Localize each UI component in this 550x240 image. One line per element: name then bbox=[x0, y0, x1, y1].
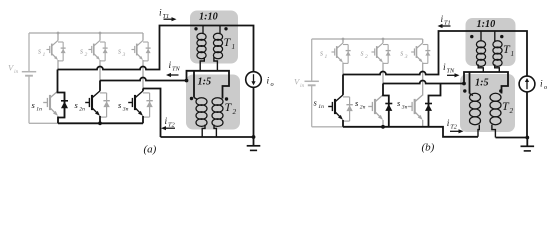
svg-text:1: 1 bbox=[43, 52, 46, 58]
svg-text:2n: 2n bbox=[79, 107, 85, 113]
svg-text:o: o bbox=[544, 84, 547, 91]
svg-text:3: 3 bbox=[122, 52, 126, 58]
svg-text:s: s bbox=[314, 98, 318, 108]
svg-text:1:5: 1:5 bbox=[475, 78, 489, 89]
svg-text:1: 1 bbox=[325, 54, 328, 60]
svg-text:s: s bbox=[38, 47, 41, 56]
svg-text:3n: 3n bbox=[401, 105, 408, 111]
svg-text:(b): (b) bbox=[422, 142, 435, 154]
svg-text:1:5: 1:5 bbox=[198, 77, 212, 88]
svg-text:1n: 1n bbox=[36, 107, 42, 113]
svg-text:o: o bbox=[271, 81, 274, 88]
svg-text:TN: TN bbox=[447, 68, 456, 75]
svg-text:2n: 2n bbox=[360, 105, 366, 111]
svg-text:in: in bbox=[14, 69, 19, 75]
svg-text:1:10: 1:10 bbox=[477, 19, 496, 30]
svg-text:s: s bbox=[397, 98, 401, 108]
svg-text:s: s bbox=[80, 47, 83, 56]
svg-text:1:10: 1:10 bbox=[199, 12, 218, 23]
svg-text:i: i bbox=[267, 77, 270, 87]
svg-text:(a): (a) bbox=[144, 144, 157, 156]
svg-text:1: 1 bbox=[511, 50, 515, 58]
svg-text:2: 2 bbox=[233, 108, 237, 116]
svg-text:2: 2 bbox=[365, 54, 368, 60]
svg-text:s: s bbox=[118, 100, 122, 110]
svg-text:T2: T2 bbox=[450, 124, 458, 131]
svg-text:2: 2 bbox=[85, 52, 88, 58]
svg-text:s: s bbox=[355, 98, 359, 108]
svg-text:s: s bbox=[320, 49, 323, 58]
svg-text:i: i bbox=[540, 80, 543, 90]
svg-text:T2: T2 bbox=[168, 122, 176, 129]
svg-text:s: s bbox=[75, 100, 79, 110]
svg-text:1n: 1n bbox=[318, 104, 324, 110]
svg-text:TN: TN bbox=[172, 66, 181, 73]
svg-text:s: s bbox=[361, 49, 364, 58]
svg-text:s: s bbox=[400, 49, 403, 58]
svg-text:s: s bbox=[32, 100, 36, 110]
svg-text:3: 3 bbox=[404, 54, 408, 60]
svg-text:s: s bbox=[118, 47, 121, 56]
svg-text:3n: 3n bbox=[122, 107, 129, 113]
svg-text:1: 1 bbox=[232, 43, 236, 51]
svg-text:2: 2 bbox=[510, 107, 514, 115]
svg-text:in: in bbox=[300, 83, 305, 89]
